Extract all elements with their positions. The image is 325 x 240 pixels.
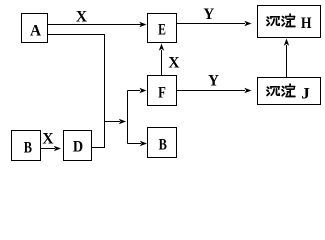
wire A down to D line <box>48 35 105 148</box>
svg-text:E: E <box>158 21 166 39</box>
svg-text:X: X <box>168 54 180 71</box>
arrowhead F up into E <box>159 44 164 51</box>
box H (chen-dian H) <box>258 6 321 38</box>
arrowhead F to J <box>244 88 251 93</box>
box A <box>22 14 48 43</box>
arrowhead E to H <box>244 21 251 26</box>
box B2 <box>148 128 177 158</box>
wire B1 to D <box>41 148 56 150</box>
wire bus vertical <box>127 91 129 144</box>
text chen-dian in box H <box>267 14 295 26</box>
wire branch to bus <box>105 121 121 123</box>
box F <box>148 76 177 106</box>
svg-text:B: B <box>24 139 33 157</box>
wire F up to E <box>161 50 163 76</box>
wire bus to B2 <box>128 143 142 145</box>
arrowhead into F <box>139 88 146 93</box>
arrowhead into E <box>139 22 146 27</box>
svg-text:Y: Y <box>208 72 219 90</box>
box J (chen-dian J) <box>258 78 321 105</box>
arrowhead into D <box>54 146 61 151</box>
svg-text:A: A <box>30 22 42 40</box>
wire J up to H <box>286 45 288 78</box>
svg-text:X: X <box>76 8 88 25</box>
arrowhead branch into bus <box>119 119 126 124</box>
arrowhead into B2 <box>140 141 147 146</box>
wire A to E <box>48 24 142 26</box>
svg-text:X: X <box>42 130 54 147</box>
arrowhead J up into H <box>284 39 289 46</box>
wire F to J <box>177 90 246 92</box>
svg-text:H: H <box>301 15 312 32</box>
wire bus to F <box>128 90 141 92</box>
text chen-dian in box J <box>267 84 295 96</box>
wire E to H <box>177 23 246 25</box>
svg-text:J: J <box>301 84 310 103</box>
box D <box>64 131 92 161</box>
box E <box>148 14 177 43</box>
svg-text:D: D <box>73 138 83 156</box>
svg-text:B: B <box>159 136 168 154</box>
svg-text:F: F <box>158 84 166 102</box>
svg-text:Y: Y <box>203 6 214 24</box>
box B1 <box>12 131 41 161</box>
